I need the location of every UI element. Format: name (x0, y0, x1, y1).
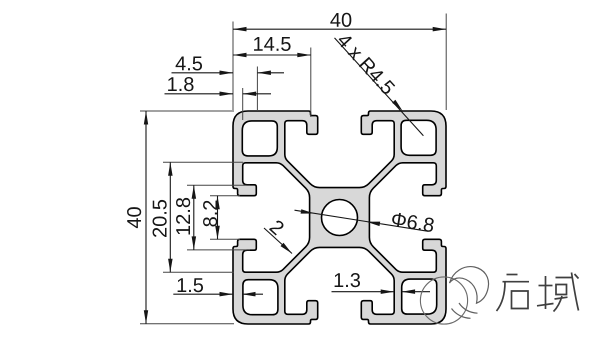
dim 1.8 (165, 77, 272, 120)
dim 4.5 (172, 57, 285, 111)
logo wave Q (450, 267, 489, 319)
dim 20.5 (153, 162, 243, 272)
dim 8.2 (203, 196, 240, 240)
dim 14.5 (233, 37, 311, 117)
dim 40 left (127, 111, 234, 324)
dim phi6.8 (295, 209, 435, 232)
logo text qi yu (497, 273, 579, 312)
dim 1.3 (332, 273, 431, 294)
logo circle (420, 277, 467, 324)
dim 12.8 (176, 185, 250, 250)
dim 4xR4.5 leader (335, 32, 424, 136)
dim 1.5 (173, 278, 263, 296)
profile cross-section body (233, 111, 446, 324)
dim 2 leader (264, 219, 292, 254)
dim 40 top (233, 13, 446, 110)
